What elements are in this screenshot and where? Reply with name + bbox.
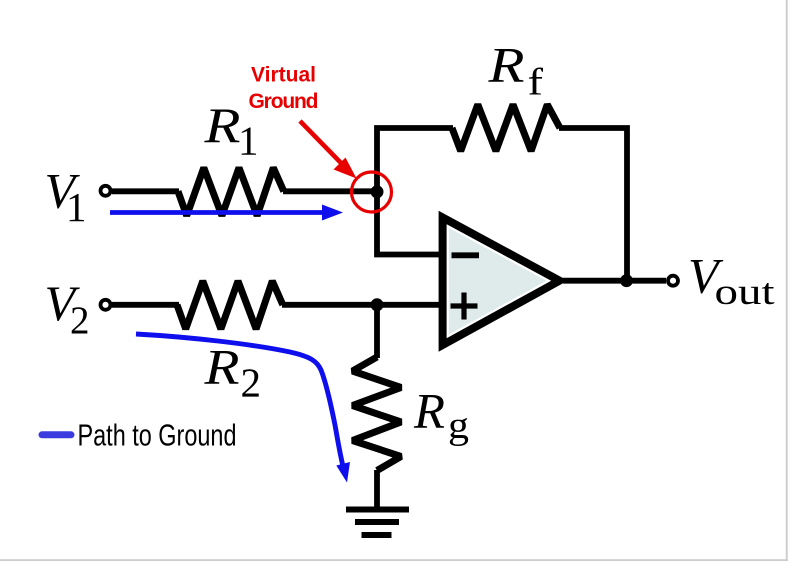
node A junction dot [371, 185, 384, 198]
svg-text:R: R [487, 37, 524, 93]
resistor R2 [177, 281, 283, 329]
wire V2 to R2 [112, 302, 179, 308]
wire node A up to feedback [377, 128, 453, 191]
svg-text:R: R [203, 338, 239, 394]
resistor Rf [452, 105, 560, 152]
output node dot [620, 274, 633, 287]
frame border bottom [0, 559, 788, 561]
terminal V1 [101, 186, 111, 196]
op-amp U1 outline [443, 218, 560, 346]
svg-text:Path to Ground: Path to Ground [78, 418, 237, 453]
svg-text:Ground: Ground [249, 90, 319, 113]
op-amp U1 fill [449, 228, 547, 335]
output wire [563, 278, 666, 284]
red circle virtual ground [352, 172, 392, 212]
wire V1 to R1 [112, 188, 179, 194]
terminal V2 [101, 300, 111, 310]
svg-text:R: R [203, 97, 240, 153]
wire Rg to ground [374, 470, 380, 507]
svg-text:out: out [715, 272, 776, 313]
svg-text:2: 2 [241, 360, 262, 406]
svg-text:g: g [448, 405, 469, 447]
resistor R1 [178, 168, 284, 216]
blue current arrow under R1 [110, 210, 327, 215]
svg-text:R: R [413, 382, 445, 438]
svg-text:f: f [528, 62, 544, 104]
wire node B down to Rg [374, 305, 380, 358]
legend swatch [42, 431, 71, 438]
frame border right [786, 0, 788, 561]
wire R2 to noninverting input [282, 302, 442, 308]
svg-text:Virtual: Virtual [251, 64, 316, 87]
node B junction dot [371, 298, 384, 311]
ground [346, 507, 409, 513]
op-amp minus sign [452, 252, 480, 258]
svg-text:1: 1 [66, 184, 87, 230]
wire node A down to inverting input [377, 191, 442, 254]
wire Rf to output node [559, 128, 627, 281]
wire R1 to node A [283, 188, 377, 194]
op-amp plus sign [451, 293, 478, 320]
resistor Rg [353, 357, 402, 471]
blue path-to-ground curve [136, 334, 344, 469]
red annotation arrow [300, 121, 342, 164]
terminal Vout [668, 276, 678, 286]
svg-text:2: 2 [70, 299, 90, 342]
svg-text:1: 1 [238, 118, 259, 164]
